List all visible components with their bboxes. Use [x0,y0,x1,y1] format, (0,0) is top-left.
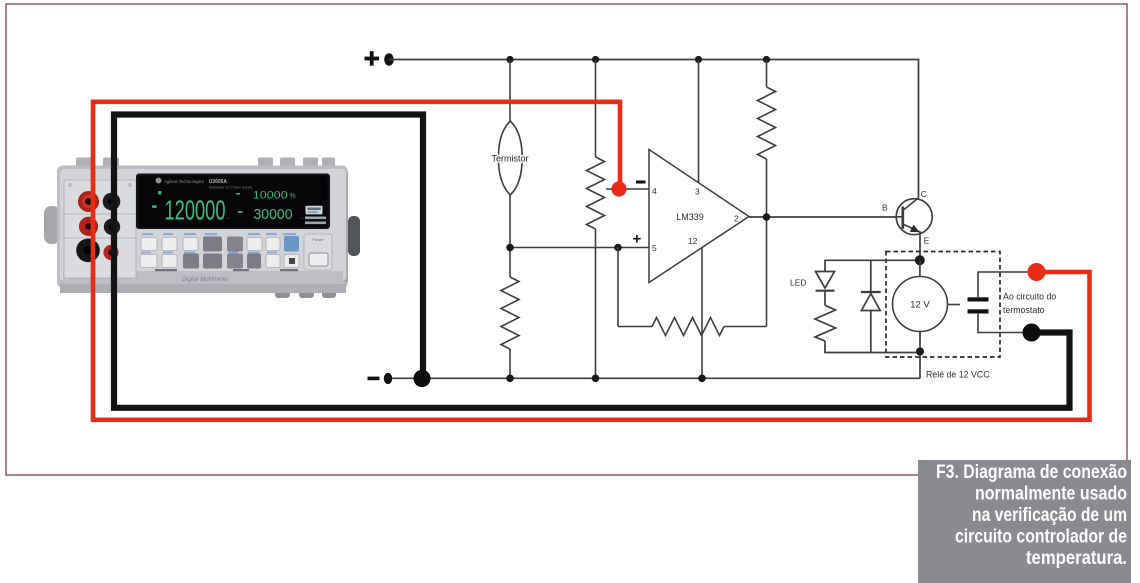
node: black output terminal [1023,324,1041,342]
svg-text:Power: Power [312,237,324,242]
svg-text:normalmente usado: normalmente usado [975,484,1127,505]
resistor R4 feedback (hysteresis) [618,217,767,336]
svg-text:5: 5 [652,243,657,253]
svg-text:3: 3 [695,187,700,197]
wire: pin 12 to ground rail [701,248,703,379]
svg-text:B: B [882,203,888,213]
svg-text:2: 2 [734,214,739,224]
svg-text:12 V: 12 V [910,300,930,311]
node: output junction [763,213,771,221]
node: red output terminal [1028,263,1046,281]
wire: LED/diode bottom return [824,352,920,354]
node: COM junction (big dot) [413,370,430,387]
svg-text:Relé de 12 VCC: Relé de 12 VCC [926,370,990,380]
svg-text:U3606A: U3606A [209,179,228,185]
svg-text:LM339: LM339 [676,212,704,222]
node: V− terminal dot [384,373,392,384]
svg-text:LED: LED [790,278,807,288]
resistor R5 (LED series) [815,305,836,352]
svg-text:30000: 30000 [254,207,293,223]
buttons row2 [140,255,299,268]
wire: U1 output to Q1 base [749,216,902,218]
LED D1 [816,260,835,305]
svg-text:na verificação de um: na verificação de um [972,505,1127,526]
node: emitter / LED junction [915,255,925,265]
resistor R2 (below thermistor) [501,248,519,379]
label: − supply [368,377,380,381]
svg-text:C: C [921,189,927,199]
svg-text:Digital Multimeter: Digital Multimeter [182,277,229,283]
node: R1 ground junction [592,375,600,383]
wire: contact bottom lead to black terminal [978,314,1032,333]
svg-text:Multimeter DC Power Supply: Multimeter DC Power Supply [209,186,253,190]
svg-text:F3. Diagrama de conexão: F3. Diagrama de conexão [936,462,1127,483]
svg-text:12: 12 [688,236,698,246]
svg-text:10000: 10000 [253,190,288,202]
resistor R3 pull-up [758,60,776,218]
svg-text:120000: 120000 [165,195,226,226]
node: top rail / R1 junction [592,56,599,63]
wire: black test lead (COM) from meter to ground rail [114,115,1070,408]
wire: Q1 emitter down to relay [919,233,921,261]
power section [304,234,332,270]
node: top rail / R3 junction [763,56,770,63]
node: coil bottom junction [916,348,924,356]
node: red probe point at pin 4 / R1 wiper [611,181,626,196]
svg-text:termostato: termostato [1003,305,1045,315]
node: V+ terminal dot [384,53,394,65]
node: thermistor / R2 junction [506,244,514,252]
wire: LED branch top feed [824,259,920,261]
diode D2 flyback [861,260,881,352]
resistor R1 (set-point divider, V+ to ground) [587,60,605,379]
wire: coil right lead [948,304,961,306]
label: + supply [365,51,380,65]
wire: coil top lead [919,260,921,277]
node: feedback tap on + input [614,244,622,252]
svg-text:..: .. [227,212,231,221]
wire: Q1 collector to top rail [918,59,920,198]
wire: positive top rail [389,59,919,61]
svg-text:E: E [924,236,930,246]
node: top rail / pin3 junction [695,56,702,63]
relay K1 dashed enclosure [886,252,1000,358]
wire: negative bottom rail [389,377,921,379]
svg-text:temperatura.: temperatura. [1026,548,1127,569]
capacitor C1 (relay contact to thermostat) [968,297,989,313]
svg-text:Agilent Technologies: Agilent Technologies [164,179,205,184]
relay coil K1 [893,277,948,332]
svg-text:Ao circuito do: Ao circuito do [1003,292,1056,302]
op-amp U1 LM339 comparator [649,150,749,283]
svg-text:.: . [301,212,303,221]
caption [918,460,1131,583]
wire: non-inverting input line (pin 5) [510,247,649,249]
wire: coil bottom to ground rail [919,332,921,379]
node: top rail / thermistor junction [506,56,513,63]
transistor Q1 NPN [896,198,932,235]
wire: contact top lead to red terminal [978,272,1037,297]
wire: pin 3 to V+ rail [698,60,700,185]
svg-text:+: + [633,231,642,248]
node: R2 ground junction [506,375,514,383]
svg-text:Termistor: Termistor [491,154,528,164]
wire: red test lead to pin 4 node [93,102,1090,420]
display [136,174,330,230]
blue labels above buttons [141,233,296,254]
svg-text:circuito controlador de: circuito controlador de [955,527,1127,548]
thermistor RT1 [498,60,522,248]
svg-text:%: % [290,193,296,200]
svg-text:4: 4 [652,186,657,196]
label: inverting input − [636,181,646,184]
node: pin 12 ground junction [698,375,706,383]
terminal module [64,180,136,278]
buttons row1 [141,238,280,251]
wire: pin 4 input lead [606,188,649,190]
multimeter DMM1 (Agilent bench meter) [44,158,360,299]
